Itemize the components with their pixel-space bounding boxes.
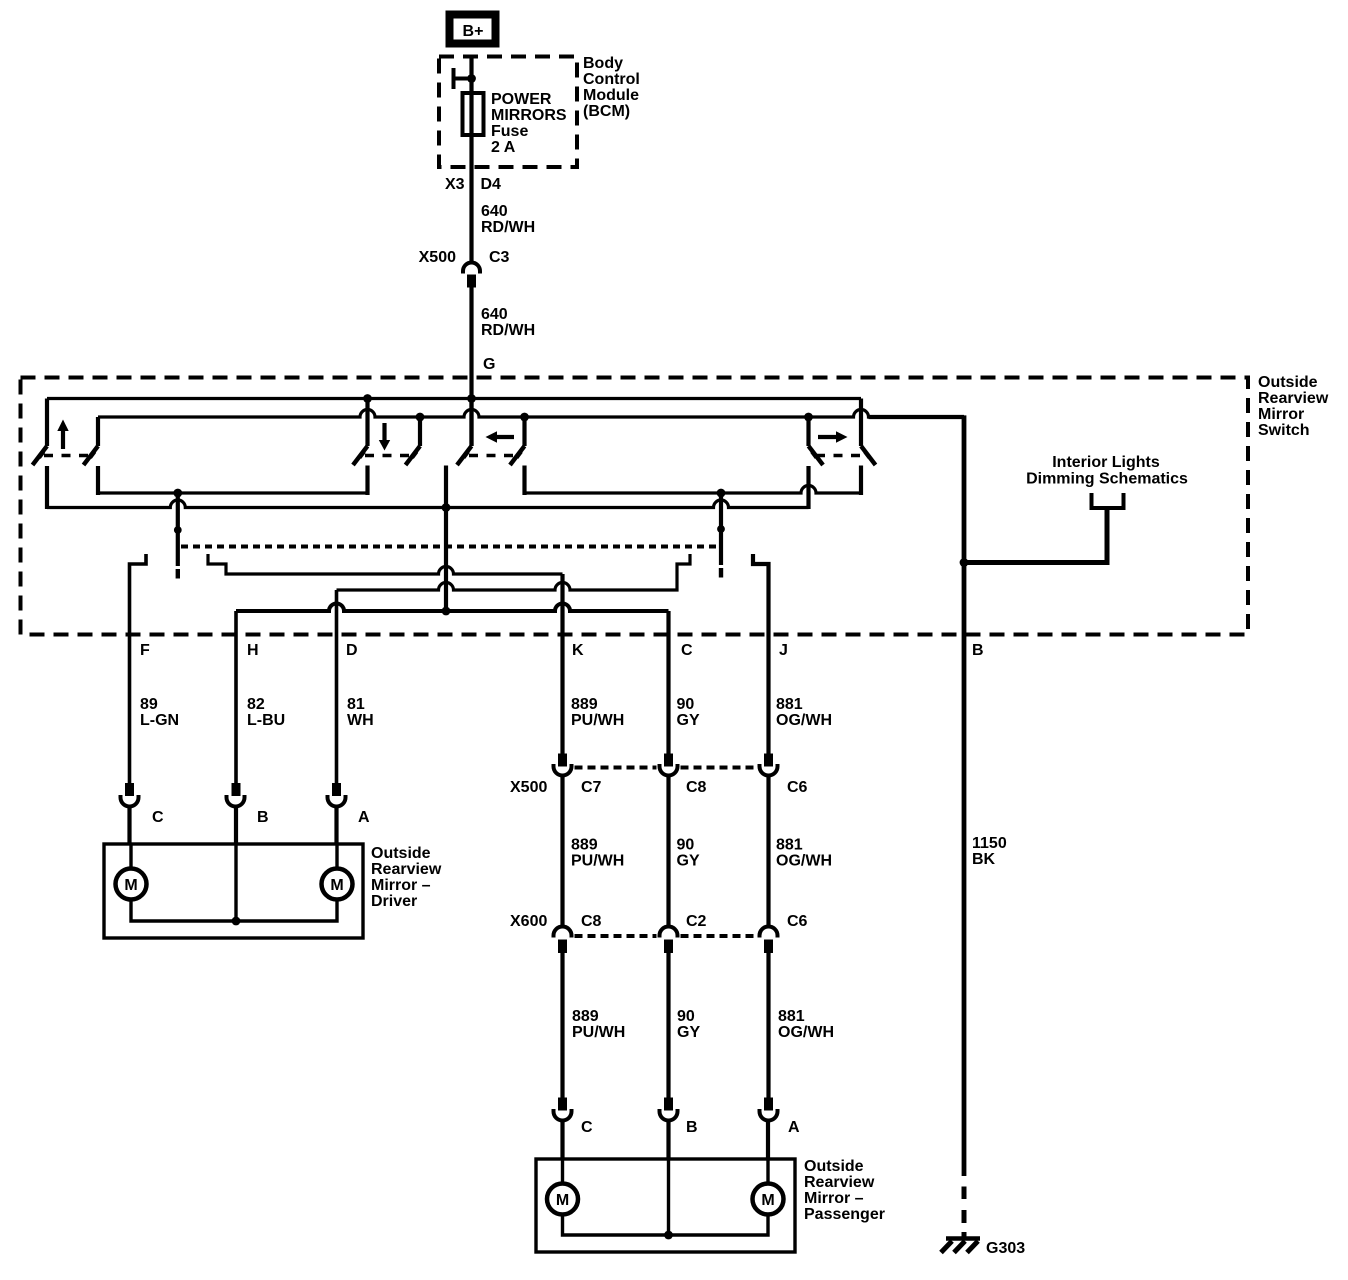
- wire H: [234, 611, 238, 783]
- wire C: [666, 611, 670, 754]
- svg-text:Switch: Switch: [1258, 422, 1310, 439]
- svg-text:640: 640: [481, 306, 508, 323]
- connector X600 C8: [554, 927, 572, 954]
- junction second bus: [804, 413, 813, 422]
- svg-text:C2: C2: [686, 913, 707, 930]
- Outside Rearview Mirror Switch dashed box: [21, 378, 1249, 635]
- svg-text:Mirror –: Mirror –: [371, 877, 431, 894]
- connector X600 C6: [760, 927, 778, 954]
- svg-text:M: M: [330, 877, 343, 894]
- Body Control Module (BCM) dashed box: [439, 57, 577, 168]
- driver mirror box: [104, 844, 363, 938]
- svg-text:X3: X3: [445, 176, 465, 193]
- svg-text:Rearview: Rearview: [371, 861, 442, 878]
- switch pin letters: [140, 642, 984, 659]
- svg-text:L-BU: L-BU: [247, 712, 285, 729]
- BCM label: [583, 55, 640, 120]
- battery feed B+: [450, 15, 496, 44]
- svg-text:90: 90: [677, 696, 695, 713]
- svg-text:889: 889: [571, 837, 598, 854]
- svg-text:B: B: [686, 1119, 698, 1136]
- svg-text:X500: X500: [419, 249, 456, 266]
- second feed bus with crossover humps: [98, 410, 964, 417]
- wire labels row C: [572, 1008, 834, 1041]
- junction second bus: [520, 413, 529, 422]
- svg-text:2 A: 2 A: [491, 139, 516, 156]
- wire labels row A: [140, 696, 832, 729]
- svg-text:X500: X500: [510, 779, 547, 796]
- wire B inside switch: [962, 415, 967, 1176]
- passenger mirror connector C: [554, 1098, 572, 1121]
- junction at fuse tap: [467, 74, 476, 83]
- selector contact F and wire F: [130, 554, 147, 783]
- passenger mirror connector B: [660, 1098, 678, 1121]
- svg-text:Control: Control: [583, 71, 640, 88]
- selector common wiper left: [174, 493, 182, 579]
- right arrow: [818, 431, 848, 442]
- svg-text:M: M: [761, 1192, 774, 1209]
- ground G303: [941, 1239, 980, 1253]
- svg-text:Body: Body: [583, 55, 623, 72]
- svg-text:M: M: [124, 877, 137, 894]
- svg-text:Outside: Outside: [371, 845, 431, 862]
- switch name label: [1258, 374, 1329, 439]
- svg-text:881: 881: [776, 696, 803, 713]
- svg-text:89: 89: [140, 696, 158, 713]
- svg-text:D: D: [346, 642, 358, 659]
- motor M passenger left: [547, 1184, 578, 1215]
- wire D: [335, 590, 339, 783]
- junction second bus: [416, 413, 425, 422]
- right switch blades: [809, 446, 876, 465]
- left switch linkage: [469, 454, 514, 457]
- down switch linkage: [365, 454, 410, 457]
- svg-text:C: C: [581, 1119, 593, 1136]
- up switch linkage: [44, 454, 93, 457]
- svg-text:BK: BK: [972, 851, 996, 868]
- svg-text:C6: C6: [787, 913, 808, 930]
- svg-text:Driver: Driver: [371, 893, 417, 910]
- wire K: [560, 574, 564, 754]
- svg-text:M: M: [556, 1192, 569, 1209]
- wires into passenger mirror: [563, 1120, 769, 1159]
- passenger mirror connector A: [760, 1098, 778, 1121]
- junction top bus: [363, 394, 372, 403]
- selector contact H side to line y574: [208, 554, 563, 574]
- svg-text:Outside: Outside: [804, 1158, 864, 1175]
- in-line connector X500 C3: [463, 263, 480, 288]
- svg-text:WH: WH: [347, 712, 374, 729]
- wires to passenger mirror: [563, 953, 769, 1098]
- driver mirror connector A: [328, 783, 346, 807]
- motor M driver right: [322, 869, 353, 900]
- fuse tap symbol: [454, 68, 472, 89]
- svg-text:C3: C3: [489, 249, 510, 266]
- left switch blades: [457, 446, 525, 465]
- svg-text:90: 90: [677, 1008, 695, 1025]
- svg-text:Rearview: Rearview: [804, 1174, 875, 1191]
- junction driver mirror: [232, 917, 241, 926]
- svg-text:C6: C6: [787, 779, 808, 796]
- center common stub to line y611: [444, 466, 448, 612]
- connector X500 C6: [760, 754, 778, 776]
- driver mirror connector B: [227, 783, 245, 807]
- junction passenger mirror: [664, 1231, 673, 1240]
- junction bottom bus center: [442, 503, 451, 512]
- common line y611: [236, 604, 669, 612]
- svg-text:C: C: [152, 809, 164, 826]
- passenger mirror box: [536, 1159, 795, 1252]
- left arrow: [486, 431, 515, 442]
- wire 640 RD/WH lower to switch: [469, 288, 473, 447]
- svg-text:Dimming Schematics: Dimming Schematics: [1026, 471, 1188, 488]
- in-line connector X500 C3 labels: [419, 249, 510, 266]
- svg-text:L-GN: L-GN: [140, 712, 179, 729]
- junction B wire: [960, 558, 969, 567]
- bottom bus y507 with humps: [47, 500, 809, 507]
- junction selector common right: [717, 489, 726, 498]
- wire through fuse: [469, 57, 473, 168]
- right switch linkage: [816, 454, 862, 457]
- svg-text:Rearview: Rearview: [1258, 390, 1329, 407]
- svg-text:C: C: [681, 642, 693, 659]
- connector X500 C7: [554, 754, 572, 776]
- motor M passenger right: [753, 1184, 784, 1215]
- svg-text:RD/WH: RD/WH: [481, 322, 535, 339]
- selector contact to line y590: [337, 554, 691, 590]
- svg-text:RD/WH: RD/WH: [481, 219, 535, 236]
- fuse POWER MIRRORS 2 A: [463, 93, 484, 135]
- svg-text:90: 90: [677, 837, 695, 854]
- svg-text:J: J: [779, 642, 788, 659]
- selector contact J and wire J: [753, 554, 769, 754]
- svg-text:OG/WH: OG/WH: [776, 853, 832, 870]
- passenger mirror internal wiring: [563, 1159, 769, 1235]
- wire labels row B: [571, 837, 832, 870]
- svg-text:Outside: Outside: [1258, 374, 1318, 391]
- wire label 640 RD/WH: [481, 306, 535, 339]
- svg-text:640: 640: [481, 203, 508, 220]
- svg-text:889: 889: [571, 696, 598, 713]
- right contact link line y493 with hump: [525, 486, 862, 493]
- up switch blades: [33, 446, 99, 465]
- connector X500 C8: [660, 754, 678, 776]
- svg-text:881: 881: [778, 1008, 805, 1025]
- svg-text:C8: C8: [686, 779, 707, 796]
- connector X600 row labels: [510, 913, 808, 930]
- wire label 1150 BK: [972, 835, 1007, 868]
- junction top bus G: [467, 394, 476, 403]
- svg-text:Fuse: Fuse: [491, 123, 528, 140]
- svg-text:A: A: [788, 1119, 800, 1136]
- driver mirror label: [371, 845, 442, 910]
- svg-text:Passenger: Passenger: [804, 1206, 885, 1223]
- up arrow: [57, 420, 68, 450]
- motor M driver left: [116, 869, 147, 900]
- wire 640 RD/WH upper: [469, 167, 473, 262]
- wire B dashed tail: [962, 1187, 967, 1238]
- svg-text:Module: Module: [583, 87, 639, 104]
- svg-text:MIRRORS: MIRRORS: [491, 107, 567, 124]
- svg-text:GY: GY: [677, 853, 700, 870]
- down arrow: [379, 423, 390, 451]
- connector X600 dashed gang line: [575, 934, 757, 938]
- svg-text:B: B: [257, 809, 269, 826]
- thick feed segment to pin B: [869, 415, 965, 419]
- svg-text:POWER: POWER: [491, 91, 552, 108]
- junction selector common left: [173, 489, 182, 498]
- svg-text:PU/WH: PU/WH: [571, 712, 624, 729]
- contact stubs upper row: [47, 466, 861, 510]
- svg-text:OG/WH: OG/WH: [778, 1024, 834, 1041]
- down switch blades: [353, 446, 420, 465]
- svg-text:C7: C7: [581, 779, 602, 796]
- driver connector pin letters: [152, 809, 370, 826]
- svg-text:889: 889: [572, 1008, 599, 1025]
- wires into driver mirror: [130, 806, 337, 844]
- switch pole feed wires: [47, 399, 861, 447]
- passenger mirror label: [804, 1158, 885, 1223]
- svg-text:GY: GY: [677, 1024, 700, 1041]
- svg-text:81: 81: [347, 696, 365, 713]
- interior lights dimming reference label: [1026, 454, 1188, 488]
- connector X600 C2: [660, 927, 678, 954]
- svg-text:82: 82: [247, 696, 265, 713]
- passenger connector pin letters: [581, 1119, 800, 1136]
- driver mirror internal wiring: [131, 844, 337, 921]
- svg-text:C8: C8: [581, 913, 602, 930]
- svg-text:881: 881: [776, 837, 803, 854]
- svg-text:B: B: [972, 642, 984, 659]
- top feed bus: [47, 397, 861, 400]
- svg-text:X600: X600: [510, 913, 547, 930]
- svg-text:Mirror: Mirror: [1258, 406, 1304, 423]
- junction center on line y611: [442, 607, 451, 616]
- interior lights reference bracket: [1092, 493, 1124, 508]
- svg-text:PU/WH: PU/WH: [572, 1024, 625, 1041]
- svg-text:PU/WH: PU/WH: [571, 853, 624, 870]
- svg-text:OG/WH: OG/WH: [776, 712, 832, 729]
- svg-text:GY: GY: [677, 712, 700, 729]
- selector mechanical dotted link: [181, 545, 722, 549]
- svg-text:F: F: [140, 642, 150, 659]
- svg-text:B+: B+: [463, 23, 484, 40]
- svg-text:G: G: [483, 356, 495, 373]
- fuse label: [491, 91, 567, 156]
- svg-text:1150: 1150: [972, 835, 1007, 852]
- svg-text:(BCM): (BCM): [583, 103, 630, 120]
- svg-text:Mirror –: Mirror –: [804, 1190, 864, 1207]
- svg-text:H: H: [247, 642, 259, 659]
- connector X500 row labels: [510, 779, 808, 796]
- svg-text:D4: D4: [481, 176, 502, 193]
- connector X500 dashed gang line: [575, 766, 757, 770]
- left contact link line y493: [98, 491, 368, 494]
- svg-text:K: K: [572, 642, 584, 659]
- svg-text:Interior Lights: Interior Lights: [1052, 454, 1160, 471]
- pin labels X3 D4: [445, 176, 501, 193]
- selector common wiper right: [717, 493, 725, 578]
- wire label 640 RD/WH: [481, 203, 535, 236]
- driver mirror connector C: [121, 783, 139, 807]
- svg-text:A: A: [358, 809, 370, 826]
- wires K C J between connectors: [563, 777, 769, 926]
- svg-text:G303: G303: [986, 1240, 1025, 1257]
